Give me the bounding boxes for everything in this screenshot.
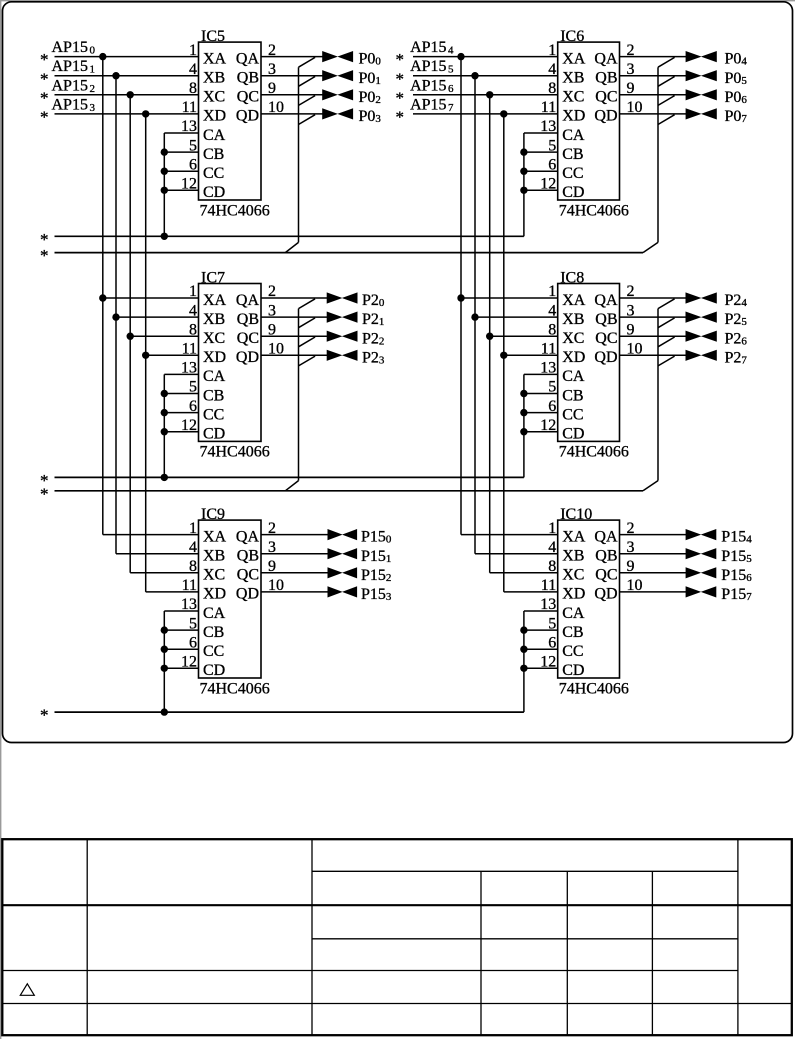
junction IC6.CC [520,168,527,175]
svg-text:QB: QB [595,311,617,328]
svg-text:XD: XD [562,586,585,603]
svg-text:QD: QD [594,349,617,366]
junction IC7.CD [161,428,168,435]
wire IC10.QC to port [620,572,687,574]
svg-text:QD: QD [594,586,617,603]
svg-text:IC8: IC8 [560,270,584,287]
svg-text:IC6: IC6 [560,28,584,45]
wire IC7.QA to port [261,297,328,299]
svg-text:QB: QB [237,548,259,565]
wire output bus vertical IC8 [657,309,659,481]
wire tap to IC10.XA [461,534,558,536]
svg-text:QD: QD [236,108,259,125]
schematic frame [3,2,793,743]
wire control chain vertical IC6 [523,133,525,236]
svg-text:*: * [396,69,405,88]
wire bus entry diagonal IC6.QC [658,96,675,106]
wire output bus vertical IC7 [298,309,300,481]
svg-text:*: * [40,50,49,69]
svg-text:*: * [40,706,49,725]
junction AP150 tap [99,53,106,60]
svg-text:CD: CD [203,662,225,679]
IC box IC9 74HC4066 [199,506,270,697]
svg-text:QD: QD [236,349,259,366]
wire vertical tap right 1 [474,76,476,554]
transmission gate P05 [686,70,717,81]
wire tap to IC9.XD [146,591,199,593]
wire IC5.QB to port [261,75,323,77]
junction AP157 tap [500,110,507,117]
transmission gate P152 [328,567,358,578]
IC box IC7 74HC4066 [199,270,270,461]
transmission gate P154 [686,529,717,540]
wire AP150 to IC5.XA [55,56,199,58]
wire vertical tap right 3 [503,114,505,592]
svg-text:XC: XC [203,89,225,106]
transmission gate P153 [328,586,358,597]
wire control stub IC8.CB [524,393,558,395]
wire bus entry diagonal IC7.QC [299,337,316,347]
wire vertical tap left 3 [145,114,147,592]
wire control stub IC5.CB [164,151,198,153]
wire vertical tap right 0 [460,57,462,535]
wire tap to IC10.XC [490,572,558,574]
svg-text:CB: CB [562,387,583,404]
transmission gate P23 [327,350,358,361]
junction IC9.CB [161,626,168,633]
IC box IC6 74HC4066 [558,28,629,219]
wire control stub IC8.CA [524,373,558,375]
wire bus entry diagonal IC7.QA [299,299,316,309]
wire output bus vertical IC5 [298,67,300,242]
svg-text:CC: CC [562,406,583,423]
wire control chain vertical IC8 [523,374,525,477]
svg-text:XD: XD [562,349,585,366]
wire IC8.QB to port [620,316,687,318]
wire AP151 to IC5.XB [55,75,199,77]
wire IC6.QC to port [620,94,687,96]
wire tap to IC7.XD [146,354,199,356]
svg-text:IC7: IC7 [201,270,225,287]
wire output bus vertical IC6 [657,67,659,242]
junction AP151 tap [112,72,119,79]
wire control stub IC9.CB [164,629,198,631]
svg-text:QA: QA [236,528,260,545]
wire IC5.QA to port [261,56,323,58]
wire control chain vertical IC10 [523,611,525,712]
transmission gate P03 [322,108,353,119]
wire bus entry diagonal IC8.QB [658,318,675,328]
wire control stub IC6.CC [524,170,558,172]
wire IC7.QD to port [261,354,328,356]
svg-text:74HC4066: 74HC4066 [200,202,270,219]
wire bus entry diagonal IC8.QD [658,356,675,366]
wire control stub IC6.CA [524,132,558,134]
wire bus entry diagonal IC7.QB [299,318,316,328]
svg-text:*: * [396,108,405,127]
wire IC10.QA to port [620,534,687,536]
svg-text:QB: QB [595,548,617,565]
wire IC9.QD to port [261,591,329,593]
svg-text:QA: QA [594,50,618,67]
wire control stub IC9.CA [164,610,198,612]
junction IC5.CB [161,148,168,155]
svg-text:CD: CD [203,426,225,443]
wire tap to IC10.XB [475,553,558,555]
wire tap to IC9.XA [103,534,199,536]
wire control chain vertical IC9 [163,611,165,712]
svg-text:CD: CD [562,662,584,679]
svg-text:CB: CB [203,146,224,163]
svg-text:CC: CC [203,643,224,660]
transmission gate P150 [328,529,358,540]
wire bus entry diagonal IC6.QD [658,115,675,125]
wire bus entry diagonal IC6.QA [658,57,675,67]
svg-text:QC: QC [237,330,259,347]
junction IC9.CC [161,646,168,653]
svg-text:XB: XB [203,70,225,87]
wire IC9.QB to port [261,553,329,555]
junction IC10.CB [520,626,527,633]
wire control stub IC8.CC [524,412,558,414]
svg-text:QC: QC [595,89,617,106]
transmission gate P20 [327,292,358,303]
svg-text:QB: QB [237,311,259,328]
svg-text:CA: CA [203,605,226,622]
wire bus bottom diagonal IC6 [643,242,658,252]
wire control stub IC7.CB [164,393,198,395]
svg-text:CA: CA [562,605,585,622]
table [2,839,792,1035]
wire control stub IC9.CC [164,648,198,650]
svg-text:XA: XA [203,528,227,545]
svg-text:XC: XC [562,89,584,106]
svg-text:XA: XA [562,292,586,309]
wire bus entry diagonal IC5.QB [299,77,316,87]
junction AP153 tap [142,110,149,117]
junction IC10.CC [520,646,527,653]
wire bus entry diagonal IC7.QD [299,356,316,366]
transmission gate P02 [322,89,353,100]
wire bus bottom diagonal IC5 [285,242,298,252]
svg-text:CB: CB [562,624,583,641]
transmission gate P24 [686,292,717,303]
junction tap IC7.XA [99,294,106,301]
junction tap IC7.XC [127,333,134,340]
junction tap IC7.XB [112,313,119,320]
transmission gate P25 [686,312,717,323]
junction IC8.CB [520,390,527,397]
wire IC9.QA to port [261,534,329,536]
svg-text:XA: XA [562,528,586,545]
wire bus entry diagonal IC6.QB [658,77,675,87]
wire control stub IC5.CD [164,189,198,191]
wire tap to IC8.XC [490,335,558,337]
junction IC5.CC [161,168,168,175]
svg-text:*: * [396,50,405,69]
wire AP157 to IC6.XD [413,113,558,115]
wire tap to IC7.XC [130,335,198,337]
wire IC10.QB to port [620,553,687,555]
svg-text:*: * [40,88,49,107]
svg-text:CC: CC [562,165,583,182]
wire IC8.QC to port [620,335,687,337]
wire control stub IC7.CD [164,431,198,433]
svg-text:QC: QC [237,89,259,106]
wire tap to IC7.XB [116,316,199,318]
wire AP154 to IC6.XA [413,56,558,58]
junction tap IC8.XC [486,333,493,340]
wire AP153 to IC5.XD [55,113,199,115]
svg-text:74HC4066: 74HC4066 [559,444,629,461]
svg-text:XB: XB [203,548,225,565]
transmission gate P22 [327,331,358,342]
wire tap to IC8.XB [475,316,558,318]
wire tap to IC10.XD [504,591,558,593]
junction IC9 control chain to bus [161,708,168,715]
junction IC7.CC [161,409,168,416]
wire bus entry diagonal IC5.QC [299,96,316,106]
wire IC6.QD to port [620,113,687,115]
svg-text:CB: CB [562,146,583,163]
svg-text:CB: CB [203,387,224,404]
wire IC7.QC to port [261,335,328,337]
wire control line section 3 [55,711,524,713]
svg-text:*: * [396,88,405,107]
transmission gate P155 [686,548,717,559]
wire control stub IC6.CD [524,189,558,191]
wire bus line section 1 [55,252,644,254]
svg-text:*: * [40,69,49,88]
wire IC10.QD to port [620,591,687,593]
svg-text:XD: XD [203,108,226,125]
wire bus entry diagonal IC8.QA [658,299,675,309]
transmission gate P04 [686,51,717,62]
wire IC5.QC to port [261,94,323,96]
wire control line section 2 [55,476,524,478]
svg-text:XA: XA [203,50,227,67]
junction IC6.CB [520,148,527,155]
svg-text:CC: CC [203,406,224,423]
wire vertical tap left 2 [129,95,131,573]
svg-text:XA: XA [562,50,586,67]
junction IC9.CD [161,665,168,672]
transmission gate P156 [686,567,717,578]
transmission gate P26 [686,331,717,342]
svg-text:CD: CD [562,184,584,201]
svg-text:QC: QC [595,330,617,347]
wire IC8.QD to port [620,354,687,356]
junction AP156 tap [486,91,493,98]
svg-text:*: * [40,246,49,265]
svg-text:XC: XC [562,330,584,347]
junction tap IC7.XD [142,352,149,359]
svg-text:IC9: IC9 [201,506,225,523]
svg-text:XC: XC [562,567,584,584]
junction AP154 tap [457,53,464,60]
svg-text:CA: CA [203,368,226,385]
wire vertical tap left 0 [102,57,104,535]
svg-text:XB: XB [562,548,584,565]
wire bus line section 2 [55,490,644,492]
svg-text:74HC4066: 74HC4066 [200,444,270,461]
junction IC6.CD [520,187,527,194]
svg-text:XD: XD [203,349,226,366]
svg-text:QB: QB [595,70,617,87]
wire tap to IC7.XA [103,297,199,299]
wire control stub IC5.CC [164,170,198,172]
transmission gate P01 [322,70,353,81]
IC box IC10 74HC4066 [558,506,629,697]
wire control stub IC10.CD [524,667,558,669]
svg-text:74HC4066: 74HC4066 [559,680,629,697]
wire AP155 to IC6.XB [413,75,558,77]
wire bus entry diagonal IC5.QA [299,57,316,67]
transmission gate P00 [322,51,353,62]
svg-text:XB: XB [562,311,584,328]
svg-text:QA: QA [236,292,260,309]
wire control stub IC7.CC [164,412,198,414]
wire tap to IC9.XB [116,553,199,555]
wire control stub IC9.CD [164,667,198,669]
svg-text:CC: CC [562,643,583,660]
wire control chain vertical IC5 [163,133,165,236]
junction IC8.CD [520,428,527,435]
svg-text:*: * [40,108,49,127]
svg-text:XD: XD [562,108,585,125]
IC box IC5 74HC4066 [199,28,270,219]
IC box IC8 74HC4066 [558,270,629,461]
wire vertical tap left 1 [115,76,117,554]
svg-text:XC: XC [203,330,225,347]
wire vertical tap right 2 [489,95,491,573]
wire IC6.QB to port [620,75,687,77]
svg-text:CC: CC [203,165,224,182]
wire AP156 to IC6.XC [413,94,558,96]
svg-text:QD: QD [236,586,259,603]
svg-text:XC: XC [203,567,225,584]
page edge shading [0,0,795,2]
svg-text:74HC4066: 74HC4066 [559,202,629,219]
junction IC7.CB [161,390,168,397]
wire bus entry diagonal IC5.QD [299,115,316,125]
transmission gate P157 [686,586,717,597]
junction IC5.CD [161,187,168,194]
svg-text:XD: XD [203,586,226,603]
svg-text:QA: QA [236,50,260,67]
wire control stub IC5.CA [164,132,198,134]
wire IC6.QA to port [620,56,687,58]
junction tap IC8.XA [457,294,464,301]
svg-text:XA: XA [203,292,227,309]
wire control stub IC10.CB [524,629,558,631]
transmission gate P151 [328,548,358,559]
wire AP152 to IC5.XC [55,94,199,96]
wire control chain vertical IC7 [163,374,165,477]
junction tap IC8.XB [471,313,478,320]
transmission gate P27 [686,350,717,361]
wire bus bottom diagonal IC7 [285,481,298,491]
revision triangle marker [20,984,34,996]
junction IC5 control chain to bus [161,233,168,240]
wire control stub IC10.CC [524,648,558,650]
wire bus entry diagonal IC8.QC [658,337,675,347]
junction IC10.CD [520,665,527,672]
wire control stub IC10.CA [524,610,558,612]
wire IC9.QC to port [261,572,329,574]
svg-text:XB: XB [562,70,584,87]
svg-text:CA: CA [562,127,585,144]
svg-text:IC10: IC10 [560,506,592,523]
svg-text:CD: CD [203,184,225,201]
svg-text:QB: QB [237,70,259,87]
wire IC7.QB to port [261,316,328,318]
wire IC8.QA to port [620,297,687,299]
wire tap to IC8.XD [504,354,558,356]
svg-text:XB: XB [203,311,225,328]
junction tap IC8.XD [500,352,507,359]
junction IC7 control chain to bus [161,474,168,481]
svg-text:*: * [40,484,49,503]
svg-text:CD: CD [562,426,584,443]
transmission gate P21 [327,312,358,323]
junction IC8.CC [520,409,527,416]
transmission gate P07 [686,108,717,119]
wire IC5.QD to port [261,113,323,115]
svg-text:QC: QC [237,567,259,584]
wire control stub IC8.CD [524,431,558,433]
junction AP152 tap [127,91,134,98]
svg-text:CA: CA [562,368,585,385]
wire control stub IC7.CA [164,373,198,375]
svg-text:CA: CA [203,127,226,144]
wire control line section 1 [55,235,524,237]
wire bus bottom diagonal IC8 [643,481,658,491]
svg-text:QA: QA [594,528,618,545]
wire tap to IC9.XC [130,572,198,574]
svg-text:QA: QA [594,292,618,309]
svg-text:QD: QD [594,108,617,125]
svg-text:IC5: IC5 [201,28,225,45]
wire tap to IC8.XA [461,297,558,299]
wire control stub IC6.CB [524,151,558,153]
transmission gate P06 [686,89,717,100]
svg-text:QC: QC [595,567,617,584]
svg-text:74HC4066: 74HC4066 [200,680,270,697]
junction AP155 tap [471,72,478,79]
svg-text:CB: CB [203,624,224,641]
